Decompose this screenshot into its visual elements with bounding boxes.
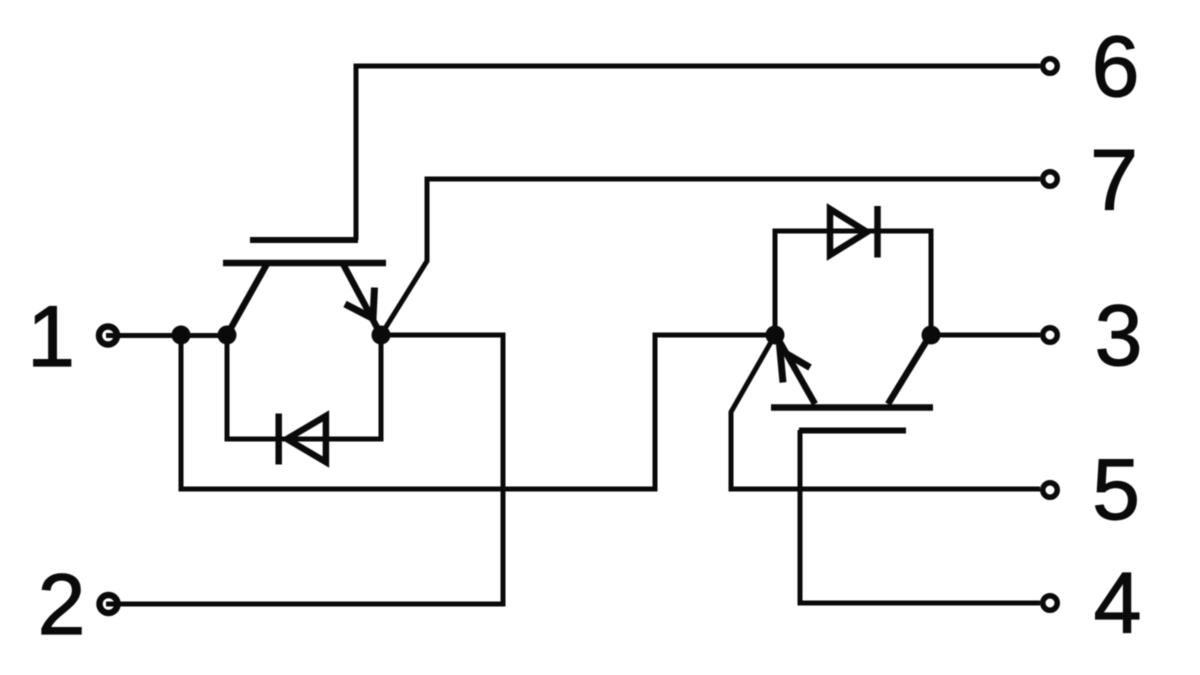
terminal 5 (1043, 483, 1058, 498)
node C junction dot (Q1 emitter) (372, 326, 391, 345)
wire Q2 gate to terminal 4 (800, 430, 1040, 603)
terminal 4 (1043, 596, 1058, 611)
wire Q1 emitter to terminal 7 (381, 179, 1040, 335)
transistor Q2 collector lead (888, 337, 929, 404)
wire diode D2 loop (775, 231, 931, 335)
svg-text:1: 1 (27, 289, 75, 385)
diode D1 cathode bar (275, 414, 282, 465)
svg-text:2: 2 (38, 557, 86, 653)
transistor Q1 body bar (223, 260, 386, 267)
wire Q2 emitter to terminal 5 (731, 335, 1040, 489)
transistor Q1 emitter lead (342, 262, 381, 335)
node E junction dot (Q2 collector) (922, 326, 941, 345)
wire Q1 emitter to terminal 2 (106, 335, 503, 604)
diode D2 triangle (830, 209, 867, 255)
terminal 7 (1043, 172, 1058, 187)
terminal 3 (1043, 328, 1058, 343)
terminal 2 (100, 595, 118, 613)
transistor Q2 gate bar (799, 428, 906, 434)
transistor Q1 collector lead (227, 262, 268, 335)
node D junction dot (Q2 emitter) (766, 326, 785, 345)
terminal 6 (1043, 59, 1058, 74)
terminal 1 (99, 327, 117, 345)
transistor Q2 emitter arrow (780, 350, 810, 383)
svg-text:4: 4 (1094, 556, 1142, 652)
transistor Q2 emitter lead (777, 337, 815, 404)
svg-text:3: 3 (1095, 288, 1143, 384)
wire node A down and across to right emitter node (181, 335, 773, 489)
wire Q2 collector to terminal 3 (931, 333, 1040, 338)
transistor Q1 emitter arrow (345, 288, 375, 319)
transistor Q1 gate bar (250, 237, 358, 243)
wire diode D1 loop (227, 335, 381, 439)
node B junction dot (Q1 collector) (218, 326, 237, 345)
svg-text:7: 7 (1090, 133, 1138, 229)
diode D1 triangle (287, 416, 326, 462)
node A junction dot (172, 326, 191, 345)
transistor Q2 body bar (771, 404, 933, 411)
wire gate of Q1 to terminal 6 (356, 66, 1040, 240)
diode D2 cathode bar (874, 206, 881, 258)
svg-text:6: 6 (1092, 19, 1140, 115)
wire terminal 1 to left collector node (106, 333, 227, 338)
svg-text:5: 5 (1092, 442, 1140, 538)
